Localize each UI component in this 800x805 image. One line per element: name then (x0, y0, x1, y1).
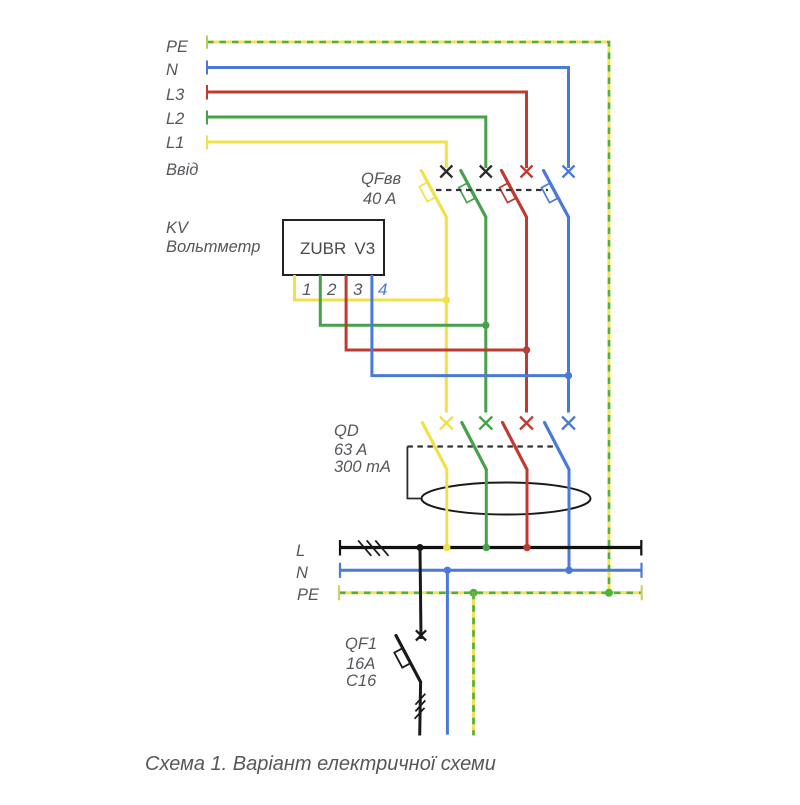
junction dot PE riser on PE bus (605, 589, 613, 597)
breaker QF1 thermal element rect (394, 648, 410, 667)
breaker QFвв pole 4 thermal element rect (542, 183, 558, 202)
svg-text:1: 1 (302, 280, 311, 299)
breaker QFвв label (361, 170, 402, 208)
bus N (blue) with end ticks (340, 563, 642, 578)
node PE bus label (297, 586, 320, 604)
RCD QD pole 3 lever (503, 423, 528, 470)
svg-text:4: 4 (378, 280, 387, 299)
junction dot N on N bus (QD pole 4) (565, 567, 572, 574)
node L bus label (296, 542, 305, 560)
svg-text:C16: C16 (346, 672, 377, 690)
node L1 label (166, 134, 184, 152)
wire L2 phase from QFвв down to QD pole 2 (484, 217, 487, 413)
svg-text:63 A: 63 A (334, 441, 367, 459)
junction dot N bus feed down (444, 567, 451, 574)
breaker QFвв pole 1 thermal element rect (419, 182, 435, 201)
svg-text:3: 3 (353, 280, 363, 299)
RCD QD pole 1 lever (422, 423, 447, 470)
breaker QFвв pole 4 contact X (563, 166, 575, 178)
svg-text:QF1: QF1 (345, 635, 377, 653)
wire L3 input: horizontal then vertical down to QFвв pole 3 (207, 85, 527, 168)
bus PE (yellow-green dashed) with end ticks (339, 585, 642, 600)
svg-text:N: N (166, 61, 178, 79)
wire PE input: horizontal from terminal, corner, vertical drop to PE bus (207, 36, 609, 593)
wire voltmeter terminal 1 to L1 node (295, 275, 447, 300)
wire voltmeter terminal 4 to N node (372, 275, 569, 376)
node PE label (166, 38, 189, 56)
svg-text:300 mA: 300 mA (334, 458, 391, 476)
breaker QFвв pole 2 lever (461, 171, 486, 218)
svg-text:40 A: 40 A (363, 190, 396, 208)
junction dot PE bus feed down (470, 589, 478, 597)
RCD QD pole 2 contact X (479, 417, 492, 430)
wire N from QFвв down to QD pole 4 (567, 217, 570, 413)
wire N from QD to N bus (568, 470, 571, 571)
node N label (166, 61, 178, 79)
RCD QD pole 4 lever (545, 423, 570, 470)
junction dot L2 on L bus (483, 544, 490, 551)
junction dot L3 on L bus (523, 544, 530, 551)
voltmeter terminal 2 label (326, 280, 337, 299)
wire L3 phase from QFвв down to QD pole 3 (525, 217, 528, 413)
svg-text:QD: QD (334, 422, 359, 440)
wire voltmeter terminal 2 to L2 node (320, 275, 486, 325)
wire QF1 output down (418, 682, 422, 736)
wire L1 input: horizontal then vertical down to QFвв pole 1 (207, 136, 446, 169)
breaker QFвв pole 3 contact X (521, 166, 533, 178)
wire voltmeter terminal 3 to L3 node (346, 275, 526, 350)
node L2 label (166, 110, 184, 128)
junction dot L2 / terminal 2 (482, 322, 489, 329)
voltmeter terminal 3 label (353, 280, 363, 299)
junction dot L bus feed to QF1 (black) (417, 544, 424, 551)
bus L (black) with end ticks (340, 540, 641, 556)
RCD QD test-circuit bracket line (407, 447, 421, 499)
breaker QFвв pole 3 lever (502, 171, 527, 218)
breaker QF1 contact X (416, 630, 426, 640)
breaker QF1 label (345, 635, 377, 690)
RCD QD pole 1 contact X (440, 417, 453, 430)
breaker QFвв pole 2 thermal element rect (459, 183, 475, 202)
junction dot L3 / terminal 3 (523, 346, 530, 353)
svg-text:ZUBR V3: ZUBR V3 (300, 239, 375, 258)
voltmeter terminal 1 label (302, 280, 311, 299)
wire L bus to QF1 (black) (420, 548, 421, 640)
svg-text:N: N (296, 564, 308, 582)
breaker QFвв pole 1 contact X (440, 166, 452, 178)
breaker QFвв pole 3 thermal element rect (500, 183, 516, 202)
wire N drop from N bus to load (446, 570, 449, 734)
svg-text:16A: 16A (346, 655, 375, 673)
svg-text:QFвв: QFвв (361, 170, 402, 188)
bus L three-conductor hatch marks (358, 540, 388, 555)
svg-text:PE: PE (166, 38, 189, 56)
wire L2 from QD to L bus (485, 470, 488, 548)
svg-text:Вольтметр: Вольтметр (166, 238, 260, 256)
svg-text:L1: L1 (166, 134, 184, 152)
wire L1 phase from QFвв down to QD pole 1 (445, 217, 448, 413)
breaker QFвв pole 4 lever (544, 171, 569, 218)
breaker QF1 lever (396, 636, 421, 683)
svg-text:Схема 1. Варіант електричної с: Схема 1. Варіант електричної схеми (145, 753, 496, 775)
junction dot L1 on L bus (443, 544, 450, 551)
RCD QD pole 4 contact X (562, 417, 575, 430)
breaker QFвв mechanical linkage dashed line (436, 189, 548, 191)
node L3 label (166, 86, 185, 104)
wire L1 from QD to L bus (445, 470, 448, 548)
svg-text:PE: PE (297, 586, 320, 604)
RCD QD label (334, 422, 391, 476)
voltmeter KV label (166, 219, 260, 256)
svg-text:KV: KV (166, 219, 190, 237)
RCD QD mechanical linkage dashed line (407, 445, 557, 447)
svg-text:L: L (296, 542, 305, 560)
RCD QD pole 2 lever (462, 423, 487, 470)
wire L2 input: horizontal then vertical down to QFвв pole 2 (207, 111, 486, 169)
voltmeter U1 box ZUBR V3 (283, 220, 384, 275)
junction dot L1 / terminal 1 (443, 296, 450, 303)
caption Схема 1 (145, 753, 496, 775)
svg-text:L2: L2 (166, 110, 184, 128)
wire N input: horizontal then vertical down to QFвв pole 4 (207, 61, 569, 169)
svg-text:Ввід: Ввід (166, 161, 198, 179)
wire QF1 output conductor-count hatch marks (415, 694, 426, 719)
RCD QD differential transformer ellipse (422, 483, 591, 515)
wire PE drop from PE bus to load (472, 593, 475, 736)
voltmeter terminal 4 label (378, 280, 387, 299)
svg-text:L3: L3 (166, 86, 185, 104)
wire L3 from QD to L bus (526, 470, 529, 548)
breaker QFвв pole 1 lever (421, 171, 446, 218)
junction dot N / terminal 4 (565, 372, 572, 379)
node N bus label (296, 564, 308, 582)
svg-text:2: 2 (326, 280, 337, 299)
node Ввід label (166, 161, 198, 179)
RCD QD pole 3 contact X (520, 417, 533, 430)
breaker QFвв pole 2 contact X (480, 166, 492, 178)
